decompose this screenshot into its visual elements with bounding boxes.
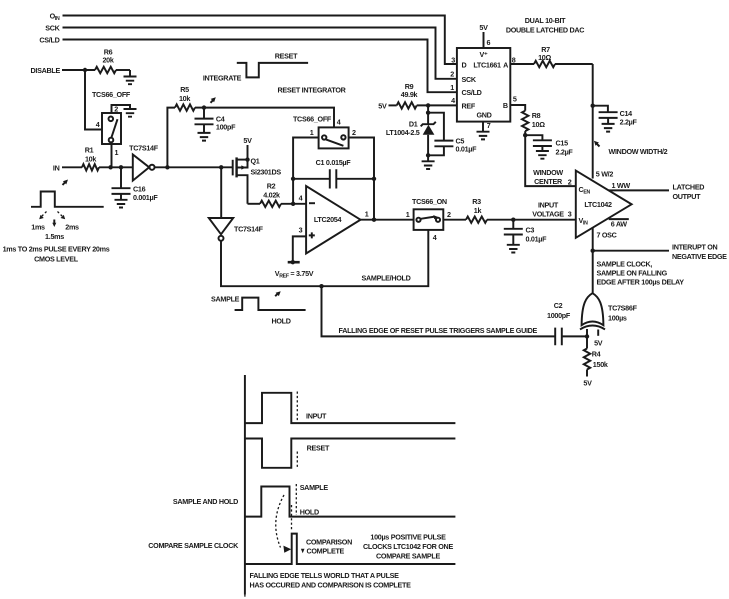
svg-text:CENTER: CENTER	[534, 177, 563, 186]
dashed arrow to 1ms	[39, 212, 46, 220]
U1 pin 3 label	[451, 56, 455, 65]
U1 pin 7 label	[487, 121, 491, 130]
svg-text:NEGATIVE EDGE: NEGATIVE EDGE	[672, 252, 727, 261]
svg-text:20k: 20k	[102, 56, 113, 65]
svg-text:R2: R2	[267, 182, 276, 191]
svg-text:RESET: RESET	[307, 444, 330, 453]
svg-text:100µs: 100µs	[608, 314, 627, 323]
svg-text:5V: 5V	[479, 23, 488, 32]
svg-text:HAS OCCURED AND COMPARISON IS: HAS OCCURED AND COMPARISON IS COMPLETE	[250, 581, 412, 590]
svg-text:COMPARE SAMPLE CLOCK: COMPARE SAMPLE CLOCK	[148, 541, 239, 550]
svg-text:2: 2	[352, 128, 356, 137]
caption DUAL 10-BIT DOUBLE LATCHED DAC	[506, 16, 584, 35]
svg-text:DUAL 10-BIT: DUAL 10-BIT	[525, 16, 566, 25]
svg-text:1: 1	[406, 210, 410, 219]
caption RESET INTEGRATOR	[277, 86, 346, 95]
svg-text:TC7S86F: TC7S86F	[608, 304, 638, 313]
caption SAMPLE CLOCK	[597, 260, 685, 287]
svg-text:R1: R1	[85, 146, 94, 155]
ground at C3	[507, 245, 520, 253]
svg-text:HOLD: HOLD	[272, 317, 291, 326]
S2 pin 2 wire	[349, 128, 374, 220]
arrow annotation at IN node	[63, 180, 69, 186]
svg-text:TCS66_ON: TCS66_ON	[412, 197, 447, 206]
node 5V at R4	[583, 379, 592, 388]
svg-text:CMOS LEVEL: CMOS LEVEL	[34, 255, 79, 264]
U6 input wire to 5V	[594, 330, 603, 348]
svg-text:49.9k: 49.9k	[401, 90, 418, 99]
svg-text:SAMPLE: SAMPLE	[211, 295, 240, 304]
svg-text:4: 4	[96, 120, 100, 129]
svg-text:2ms: 2ms	[65, 223, 79, 232]
op-amp U4 LTC2054	[306, 186, 360, 254]
wire to switch S2 pin 4	[204, 108, 334, 128]
svg-text:100pF: 100pF	[216, 123, 236, 132]
svg-text:5V: 5V	[583, 379, 592, 388]
U6 input wire to C2/R4 node	[585, 329, 589, 339]
capacitor C5 0.01uF	[428, 113, 477, 156]
dashed arrow sample to compare	[276, 495, 291, 553]
svg-text:V⁺: V⁺	[480, 50, 488, 59]
svg-text:4: 4	[433, 233, 437, 242]
svg-text:SCK: SCK	[45, 24, 60, 33]
U1 pin 2 label	[450, 70, 454, 79]
wire inverter output to Q1 gate	[155, 165, 233, 169]
svg-text:TC7S14F: TC7S14F	[234, 225, 264, 234]
resistor R3 1k	[466, 197, 576, 223]
caption COMPARE SAMPLE CLOCK	[148, 541, 239, 550]
caption 1ms TO 2ms PULSE EVERY 20ms	[3, 245, 110, 264]
timing COMPARE trace	[245, 534, 456, 564]
caption 100us positive pulse	[363, 533, 453, 561]
svg-text:LTC1661: LTC1661	[473, 61, 501, 70]
svg-text:HOLD: HOLD	[300, 508, 319, 517]
small arrow to 1.5ms	[52, 220, 56, 228]
svg-text:Si2301DS: Si2301DS	[251, 168, 282, 177]
svg-text:5: 5	[513, 95, 517, 104]
svg-text:5V: 5V	[243, 136, 252, 145]
svg-text:1: 1	[310, 128, 314, 137]
wire sample clock output	[591, 228, 670, 294]
junction input node	[108, 165, 123, 169]
svg-text:A: A	[503, 61, 508, 70]
timing dashed edge marker input	[296, 392, 298, 468]
resistor R5 10k	[175, 85, 206, 111]
svg-text:0.001µF: 0.001µF	[133, 193, 158, 202]
capacitor C15 2.2uF	[525, 135, 573, 156]
svg-text:COMPLETE: COMPLETE	[307, 547, 345, 556]
U1 pin 8 label	[512, 56, 516, 65]
svg-text:SAMPLE ON FALLING: SAMPLE ON FALLING	[597, 269, 668, 278]
timing dashed marker compare	[291, 505, 293, 531]
svg-text:6: 6	[487, 38, 491, 47]
caption SAMPLE AND HOLD	[173, 497, 238, 506]
timing axis vertical	[244, 375, 246, 599]
ground at C14	[602, 124, 615, 132]
ground at D1	[422, 155, 435, 169]
dashed arrow to 2ms	[58, 212, 66, 220]
svg-text:3: 3	[299, 225, 303, 234]
resistor R4 150k	[584, 336, 608, 376]
node CS/LD label and wire to DAC pin 1	[39, 36, 456, 93]
svg-text:VREF = 3.75V: VREF = 3.75V	[275, 269, 314, 280]
svg-text:5V: 5V	[594, 339, 603, 348]
svg-text:CEN: CEN	[579, 185, 591, 196]
node DIN label and wire to DAC pin 3	[50, 12, 457, 65]
svg-text:INPUT: INPUT	[538, 201, 559, 210]
svg-text:10Ω: 10Ω	[532, 120, 545, 129]
svg-text:2: 2	[447, 210, 451, 219]
svg-text:C15: C15	[556, 139, 569, 148]
caption LATCHED OUTPUT	[673, 183, 705, 202]
svg-text:RESET: RESET	[275, 52, 298, 61]
svg-text:1: 1	[450, 83, 454, 92]
node 5V at DAC	[479, 23, 488, 48]
U5 pin 6 AW stub	[609, 219, 629, 228]
wire DISABLE to switch S1 pin 4	[85, 70, 102, 130]
svg-text:0.01µF: 0.01µF	[526, 235, 548, 244]
svg-text:LTC1042: LTC1042	[584, 200, 612, 209]
U1 pin 7 ground wire	[477, 122, 490, 140]
svg-text:2.2µF: 2.2µF	[556, 148, 574, 157]
arrow annotation at C4 node	[211, 97, 216, 103]
U5 pin 2 CEN label	[568, 178, 572, 187]
U1 pin 1 label	[450, 83, 454, 92]
ground at R6	[124, 70, 137, 84]
svg-text:LTC2054: LTC2054	[314, 215, 342, 224]
caption falling edge tells world	[250, 571, 412, 590]
label 1ms	[31, 223, 45, 232]
svg-text:1.5ms: 1.5ms	[45, 232, 64, 241]
label 2ms	[65, 223, 79, 232]
svg-text:IN: IN	[53, 164, 60, 173]
label INTEGRATE	[203, 74, 242, 83]
svg-text:1: 1	[115, 148, 119, 157]
timing SAMPLE trace	[245, 483, 456, 517]
svg-text:10k: 10k	[179, 94, 190, 103]
wire R5 branch	[167, 108, 175, 168]
switch TCS66_OFF S2 (reset integrator switch)	[293, 115, 349, 149]
svg-text:WINDOW: WINDOW	[533, 168, 563, 177]
svg-text:EDGE AFTER 100µs DELAY: EDGE AFTER 100µs DELAY	[597, 278, 685, 287]
svg-text:C2: C2	[554, 301, 563, 310]
svg-text:150k: 150k	[593, 360, 608, 369]
svg-text:LT1004-2.5: LT1004-2.5	[386, 128, 420, 137]
svg-text:SAMPLE: SAMPLE	[300, 483, 329, 492]
timing RESET trace	[245, 439, 456, 468]
caption WINDOW WIDTH/2	[594, 141, 668, 156]
ground at C4	[198, 133, 211, 141]
S1 pin 2 to ground	[112, 105, 137, 117]
timing INPUT trace	[245, 393, 456, 423]
svg-text:REF: REF	[462, 102, 476, 111]
U1 pin 4 label	[451, 96, 455, 105]
svg-text:4: 4	[337, 118, 341, 127]
svg-text:3: 3	[568, 210, 572, 219]
capacitor C4 100pF	[195, 108, 237, 133]
capacitor C3 0.01uF	[504, 220, 547, 245]
svg-text:4: 4	[299, 193, 303, 202]
svg-text:1: 1	[365, 210, 369, 219]
svg-text:TCS66_OFF: TCS66_OFF	[293, 115, 332, 124]
svg-text:CS/LD: CS/LD	[39, 36, 59, 45]
resistor R1 10k	[82, 146, 133, 171]
svg-text:2.2µF: 2.2µF	[620, 118, 638, 127]
S2 pin 4 label	[337, 118, 341, 127]
svg-text:COMPARE SAMPLE: COMPARE SAMPLE	[376, 552, 440, 561]
xor-gate U6 TC7S86F	[580, 293, 638, 329]
svg-text:1ms TO 2ms PULSE EVERY 20ms: 1ms TO 2ms PULSE EVERY 20ms	[3, 245, 110, 254]
svg-text:COMPARISON: COMPARISON	[306, 538, 352, 547]
svg-text:R3: R3	[472, 197, 481, 206]
resistor R8 10ohm	[510, 105, 576, 186]
comparator U5 LTC1042	[576, 171, 632, 238]
svg-text:2: 2	[568, 178, 572, 187]
svg-text:CS/LD: CS/LD	[462, 88, 482, 97]
svg-text:WINDOW WIDTH/2: WINDOW WIDTH/2	[609, 147, 668, 156]
svg-text:LATCHED: LATCHED	[673, 183, 705, 192]
input pulse waveform 1ms-2ms	[31, 192, 104, 207]
svg-text:1k: 1k	[474, 206, 482, 215]
S1 pin 1 wire to input line	[112, 144, 119, 167]
caption COMPARISON COMPLETE	[301, 538, 352, 556]
svg-text:Q1: Q1	[251, 157, 260, 166]
wire W/2 vertical	[591, 64, 595, 179]
wire sample/hold line	[221, 230, 428, 289]
capacitor C1 0.015uF feedback	[291, 158, 376, 189]
U5 pin 1 WW output	[609, 181, 669, 190]
svg-text:OIN: OIN	[50, 12, 60, 23]
caption FALLING EDGE OF RESET PULSE TRIGGERS SAMPLE GUIDE	[339, 326, 538, 335]
svg-text:VOLTAGE: VOLTAGE	[532, 210, 564, 219]
label 1.5ms	[45, 232, 64, 241]
svg-text:2: 2	[450, 70, 454, 79]
switch TCS66_OFF S1 (input disable switch)	[92, 90, 131, 144]
U4 pin 4 inverting input	[299, 193, 303, 202]
svg-text:VIN: VIN	[579, 216, 589, 227]
U1 pin 5 label	[513, 95, 517, 104]
svg-text:INTEGRATE: INTEGRATE	[203, 74, 242, 83]
U5 pin 7 OSC label	[597, 231, 617, 240]
ground at C15	[536, 151, 549, 159]
svg-text:SAMPLE AND HOLD: SAMPLE AND HOLD	[173, 497, 238, 506]
caption INPUT VOLTAGE	[532, 201, 564, 219]
svg-text:7 OSC: 7 OSC	[597, 231, 617, 240]
node 5V at Q1 source	[243, 136, 252, 162]
svg-text:4: 4	[451, 96, 455, 105]
arrow annotation at sample waveform	[275, 291, 281, 296]
svg-text:C3: C3	[526, 226, 535, 235]
svg-text:INPUT: INPUT	[306, 412, 327, 421]
svg-text:D: D	[462, 61, 467, 70]
S3 pin 1 label	[406, 210, 410, 219]
diode D1 LT1004-2.5 zener	[386, 105, 436, 157]
transistor Q1 Si2301DS P-MOSFET	[233, 157, 282, 204]
U4 pin 1 output wire	[361, 210, 414, 222]
sample waveform annotation	[211, 295, 306, 326]
S3 pin 2 wire	[443, 210, 466, 220]
U4 pin 3 non-inverting input	[288, 225, 306, 264]
svg-text:SAMPLE CLOCK,: SAMPLE CLOCK,	[597, 260, 653, 269]
U5 pin 5 W/2 label	[596, 170, 614, 179]
resistor R9 49.9k	[397, 82, 457, 109]
label RESET	[275, 52, 298, 61]
svg-text:DISABLE: DISABLE	[31, 66, 61, 75]
svg-text:CLOCKS LTC1042 FOR ONE: CLOCKS LTC1042 FOR ONE	[363, 542, 453, 551]
svg-text:5V: 5V	[378, 102, 387, 111]
resistor R7 10ohm	[510, 45, 592, 67]
node DISABLE label and wire	[31, 66, 95, 75]
U1 pin 6 label	[487, 38, 491, 47]
svg-text:0.01µF: 0.01µF	[456, 145, 478, 154]
capacitor C16 0.001uF	[112, 167, 159, 202]
svg-text:DOUBLE LATCHED DAC: DOUBLE LATCHED DAC	[506, 26, 584, 35]
svg-text:R4: R4	[592, 350, 601, 359]
svg-text:TC7S14F: TC7S14F	[129, 144, 159, 153]
caption INTERUPT ON NEGATIVE EDGE	[672, 243, 727, 262]
S1 pin 4 label	[96, 120, 100, 129]
svg-text:RESET INTEGRATOR: RESET INTEGRATOR	[277, 86, 346, 95]
reset waveform pulse	[237, 63, 308, 78]
S2 pin 1 wire	[293, 128, 319, 204]
inverter U3 TC7S14F (sample/hold driver)	[209, 167, 264, 241]
svg-text:4.02k: 4.02k	[263, 191, 280, 200]
wire falling edge trigger line	[322, 286, 556, 336]
caption WINDOW CENTER	[533, 168, 563, 186]
svg-text:7: 7	[487, 121, 491, 130]
svg-text:FALLING EDGE OF RESET PULSE TR: FALLING EDGE OF RESET PULSE TRIGGERS SAM…	[339, 326, 538, 335]
svg-text:100µs POSITIVE PULSE: 100µs POSITIVE PULSE	[370, 533, 446, 542]
svg-text:6 AW: 6 AW	[611, 220, 628, 229]
svg-text:1 WW: 1 WW	[612, 181, 631, 190]
inverter U2 TC7S14F	[129, 144, 159, 181]
svg-text:5 W/2: 5 W/2	[596, 170, 614, 179]
svg-text:B: B	[503, 101, 508, 110]
node IN label	[53, 164, 82, 173]
svg-text:1000pF: 1000pF	[547, 311, 571, 320]
switch TCS66_ON S3 (sample switch)	[412, 197, 447, 230]
svg-text:C1 0.015µF: C1 0.015µF	[316, 158, 352, 167]
node 5V at R9	[378, 102, 396, 111]
node SCK label and wire to DAC pin 2	[45, 24, 457, 79]
svg-text:SAMPLE/HOLD: SAMPLE/HOLD	[362, 274, 411, 283]
label VREF = 3.75V	[275, 269, 314, 280]
svg-text:FALLING EDGE TELLS WORLD THAT: FALLING EDGE TELLS WORLD THAT A PULSE	[250, 571, 400, 580]
ground at C16	[115, 200, 128, 208]
svg-text:GND: GND	[476, 111, 491, 120]
svg-text:INTERUPT ON: INTERUPT ON	[672, 243, 718, 252]
svg-text:TCS66_OFF: TCS66_OFF	[92, 90, 131, 99]
svg-text:OUTPUT: OUTPUT	[673, 192, 702, 201]
svg-text:3: 3	[451, 56, 455, 65]
S3 pin 4 label	[433, 233, 437, 242]
svg-text:R8: R8	[532, 111, 541, 120]
svg-text:SCK: SCK	[462, 75, 477, 84]
DAC U1 LTC1661	[457, 48, 510, 122]
capacitor C2 1000pF	[547, 301, 587, 345]
capacitor C14 2.2uF	[593, 106, 638, 127]
resistor R2 4.02k	[248, 182, 307, 208]
resistor R6 20k	[95, 48, 130, 74]
timing dashed edge marker sample	[295, 484, 297, 515]
svg-text:R5: R5	[180, 85, 189, 94]
label SAMPLE/HOLD	[362, 274, 411, 283]
U5 pin 3 VIN label	[568, 210, 572, 219]
svg-text:1ms: 1ms	[31, 223, 45, 232]
